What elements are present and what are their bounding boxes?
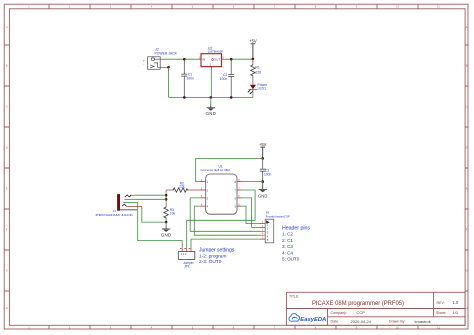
svg-text:OUT: OUT xyxy=(214,58,221,62)
svg-text:Company:: Company: xyxy=(331,311,347,315)
svg-text:GND: GND xyxy=(258,193,267,198)
svg-text:4: 4 xyxy=(151,5,153,9)
svg-text:B: B xyxy=(6,64,8,68)
svg-text:5: 5 xyxy=(192,5,194,9)
svg-text:F: F xyxy=(466,228,468,232)
ground symbol (logic) xyxy=(258,182,267,199)
svg-text:3: C3: 3: C3 xyxy=(282,244,293,249)
capacitor C2 xyxy=(220,58,234,98)
wire jack sleeve down to ground rail xyxy=(168,67,170,97)
svg-text:1-2: program: 1-2: program xyxy=(199,253,226,259)
svg-text:LED1: LED1 xyxy=(258,86,267,90)
node +5V junction xyxy=(252,58,255,61)
+5V power symbol (logic) xyxy=(259,142,267,158)
svg-text:G: G xyxy=(466,269,468,273)
ground symbol (R3) xyxy=(161,222,172,238)
svg-text:+5V: +5V xyxy=(249,38,257,43)
svg-text:10: 10 xyxy=(396,5,399,9)
wire serial-in node vertical xyxy=(165,190,167,203)
wire U1 pin5 to header pin1 xyxy=(242,206,261,223)
svg-text:2: C1: 2: C1 xyxy=(282,238,293,243)
wire U1 pin4 to header pin4 xyxy=(194,206,260,235)
resistor R1 xyxy=(251,59,262,85)
wire jack tip to U2 IN xyxy=(160,58,163,60)
svg-text:220: 220 xyxy=(255,70,261,74)
svg-text:Connector dip8 for 08M: Connector dip8 for 08M xyxy=(200,168,230,172)
title block xyxy=(287,292,466,325)
svg-text:JP1: JP1 xyxy=(184,264,190,268)
LED1 (power LED) xyxy=(247,83,268,98)
svg-text:5: OUT0: 5: OUT0 xyxy=(282,257,300,262)
svg-text:E: E xyxy=(466,187,468,191)
svg-text:3: 3 xyxy=(110,5,112,9)
svg-text:TITLE:: TITLE: xyxy=(289,294,299,298)
note: jumper settings xyxy=(199,248,235,265)
svg-text:IN: IN xyxy=(202,58,205,62)
svg-text:1: 1 xyxy=(199,55,201,59)
svg-text:C: C xyxy=(466,105,468,109)
IC socket U1 xyxy=(199,165,241,215)
junction jack switch xyxy=(165,198,168,201)
junction jack tip xyxy=(165,194,168,197)
capacitor C1 xyxy=(181,58,194,98)
svg-text:-: - xyxy=(143,62,144,66)
voltage regulator U2 xyxy=(199,46,225,66)
svg-text:1 2 3: 1 2 3 xyxy=(181,252,187,256)
wire jack sleeve to ground xyxy=(126,205,142,207)
ground symbol (power section) xyxy=(205,97,216,115)
svg-text:2: 2 xyxy=(69,5,71,9)
svg-text:REV:: REV: xyxy=(437,301,445,305)
node VIN junction at jack sleeve xyxy=(167,66,170,69)
wire jack ring to jumper pin1 xyxy=(124,203,183,248)
svg-text:1.0: 1.0 xyxy=(453,300,459,305)
junction U2-gnd xyxy=(210,96,213,99)
svg-text:H: H xyxy=(466,306,468,310)
svg-text:22k: 22k xyxy=(179,185,185,189)
svg-text:D: D xyxy=(466,146,468,150)
svg-text:D: D xyxy=(6,146,8,150)
svg-text:1: 1 xyxy=(28,5,30,9)
jumper JP1 xyxy=(178,248,195,269)
capacitor C3 xyxy=(260,158,272,181)
program jack J1 xyxy=(96,194,137,217)
junction C1-gnd xyxy=(183,96,186,99)
resistor R3 xyxy=(164,203,176,223)
note: header pins list xyxy=(282,226,310,262)
svg-text:LM78M05F: LM78M05F xyxy=(208,50,224,54)
svg-text:Jumper settings: Jumper settings xyxy=(199,248,235,254)
wire jumper pin3 to header pin5 xyxy=(191,239,260,248)
svg-text:E: E xyxy=(6,187,8,191)
svg-text:Date:: Date: xyxy=(331,320,340,324)
svg-text:H: H xyxy=(6,306,8,310)
svg-text:Female header1*5P: Female header1*5P xyxy=(266,214,290,218)
svg-text:4: C4: 4: C4 xyxy=(282,250,293,255)
+5V power symbol (top) xyxy=(249,38,257,59)
junction C2-gnd xyxy=(230,96,233,99)
svg-text:9: 9 xyxy=(356,5,358,9)
svg-text:GND: GND xyxy=(205,111,216,116)
ground rail wire xyxy=(169,96,253,98)
svg-text:2020-04-24: 2020-04-24 xyxy=(351,319,372,324)
svg-text:7: 7 xyxy=(274,5,276,9)
svg-text:2-3: OUT0: 2-3: OUT0 xyxy=(199,259,222,265)
node +5V junction (logic) xyxy=(261,157,264,160)
svg-text:11: 11 xyxy=(437,5,440,9)
wire +5V to U1 pin1 xyxy=(196,158,263,181)
wire U1 pin3 to header pin3 xyxy=(190,198,260,231)
svg-text:G: G xyxy=(6,269,8,273)
svg-text:+5V: +5V xyxy=(259,142,267,147)
wire U1 pin8 to GND net xyxy=(242,181,263,183)
power jack J2 xyxy=(143,48,178,70)
svg-text:POWER JACK: POWER JACK xyxy=(155,52,178,56)
svg-text:GND: GND xyxy=(161,233,172,238)
junction R3 bottom xyxy=(165,221,168,224)
svg-text:B: B xyxy=(466,64,468,68)
wire U2 GND pin down xyxy=(210,67,212,70)
resistor R2 xyxy=(166,181,199,192)
svg-text:F: F xyxy=(6,228,8,232)
wire jack switch to R2 node xyxy=(125,198,135,200)
wire U1 pin6 to header pin2 xyxy=(242,198,261,228)
svg-text:Sheet:: Sheet: xyxy=(436,311,446,315)
svg-text:Drawn By:: Drawn By: xyxy=(389,320,406,324)
svg-text:A: A xyxy=(466,25,468,29)
female header P1 xyxy=(260,211,290,243)
svg-text:3: 3 xyxy=(222,55,224,59)
wire U2 OUT to +5V xyxy=(222,58,226,60)
svg-text:10k: 10k xyxy=(170,212,176,216)
svg-text:PROGRAM JACK: PROGRAM JACK xyxy=(96,213,135,217)
svg-text:kmastrok: kmastrok xyxy=(415,319,431,324)
wire U1 pin7 to jumper pin2 xyxy=(187,190,255,248)
svg-text:100n: 100n xyxy=(187,76,195,80)
svg-text:CCP: CCP xyxy=(357,310,366,315)
svg-text:R1: R1 xyxy=(255,66,260,70)
svg-text:100n: 100n xyxy=(220,77,228,81)
svg-text:1: C2: 1: C2 xyxy=(282,232,293,237)
EasyEDA logo xyxy=(289,314,326,323)
svg-text:100n: 100n xyxy=(264,173,272,177)
svg-text:PICAXE 08M programmer (PRF05): PICAXE 08M programmer (PRF05) xyxy=(312,301,404,307)
svg-text:6: 6 xyxy=(233,5,235,9)
wire jack tip to R2 node xyxy=(130,194,135,196)
svg-text:8: 8 xyxy=(315,5,317,9)
svg-text:C: C xyxy=(6,105,8,109)
node GND junction at C3 xyxy=(261,180,264,183)
svg-text:EasyEDA: EasyEDA xyxy=(300,317,326,323)
svg-text:1/1: 1/1 xyxy=(453,310,459,315)
svg-text:A: A xyxy=(6,25,8,29)
